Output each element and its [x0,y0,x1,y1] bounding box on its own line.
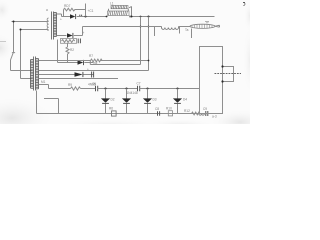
svg-text:RD7: RD7 [64,4,71,8]
svg-text:1N4148: 1N4148 [127,91,138,95]
svg-text:+: + [83,31,85,35]
svg-text:R10: R10 [166,107,172,111]
svg-text:D3: D3 [153,98,157,102]
svg-text:L1: L1 [110,2,114,6]
svg-text:D4: D4 [183,98,187,102]
svg-text:R2: R2 [70,48,74,52]
svg-text:a: a [46,8,48,12]
svg-text:R9: R9 [68,83,72,87]
svg-text:+C1: +C1 [88,9,94,13]
svg-text:C5: C5 [92,82,96,86]
svg-text:R12: R12 [184,109,190,113]
svg-text:+: + [87,68,89,72]
svg-text:D2: D2 [111,98,115,102]
svg-text:C9: C9 [203,107,207,111]
svg-text:+: + [60,18,62,22]
svg-text:a-3: a-3 [212,115,217,119]
svg-text:M1: M1 [41,80,46,84]
svg-text:C7: C7 [137,82,141,86]
svg-text:Ta: Ta [185,28,189,32]
svg-text:R6: R6 [109,107,113,111]
svg-text:R7: R7 [89,54,93,58]
svg-text:C8: C8 [155,107,159,111]
